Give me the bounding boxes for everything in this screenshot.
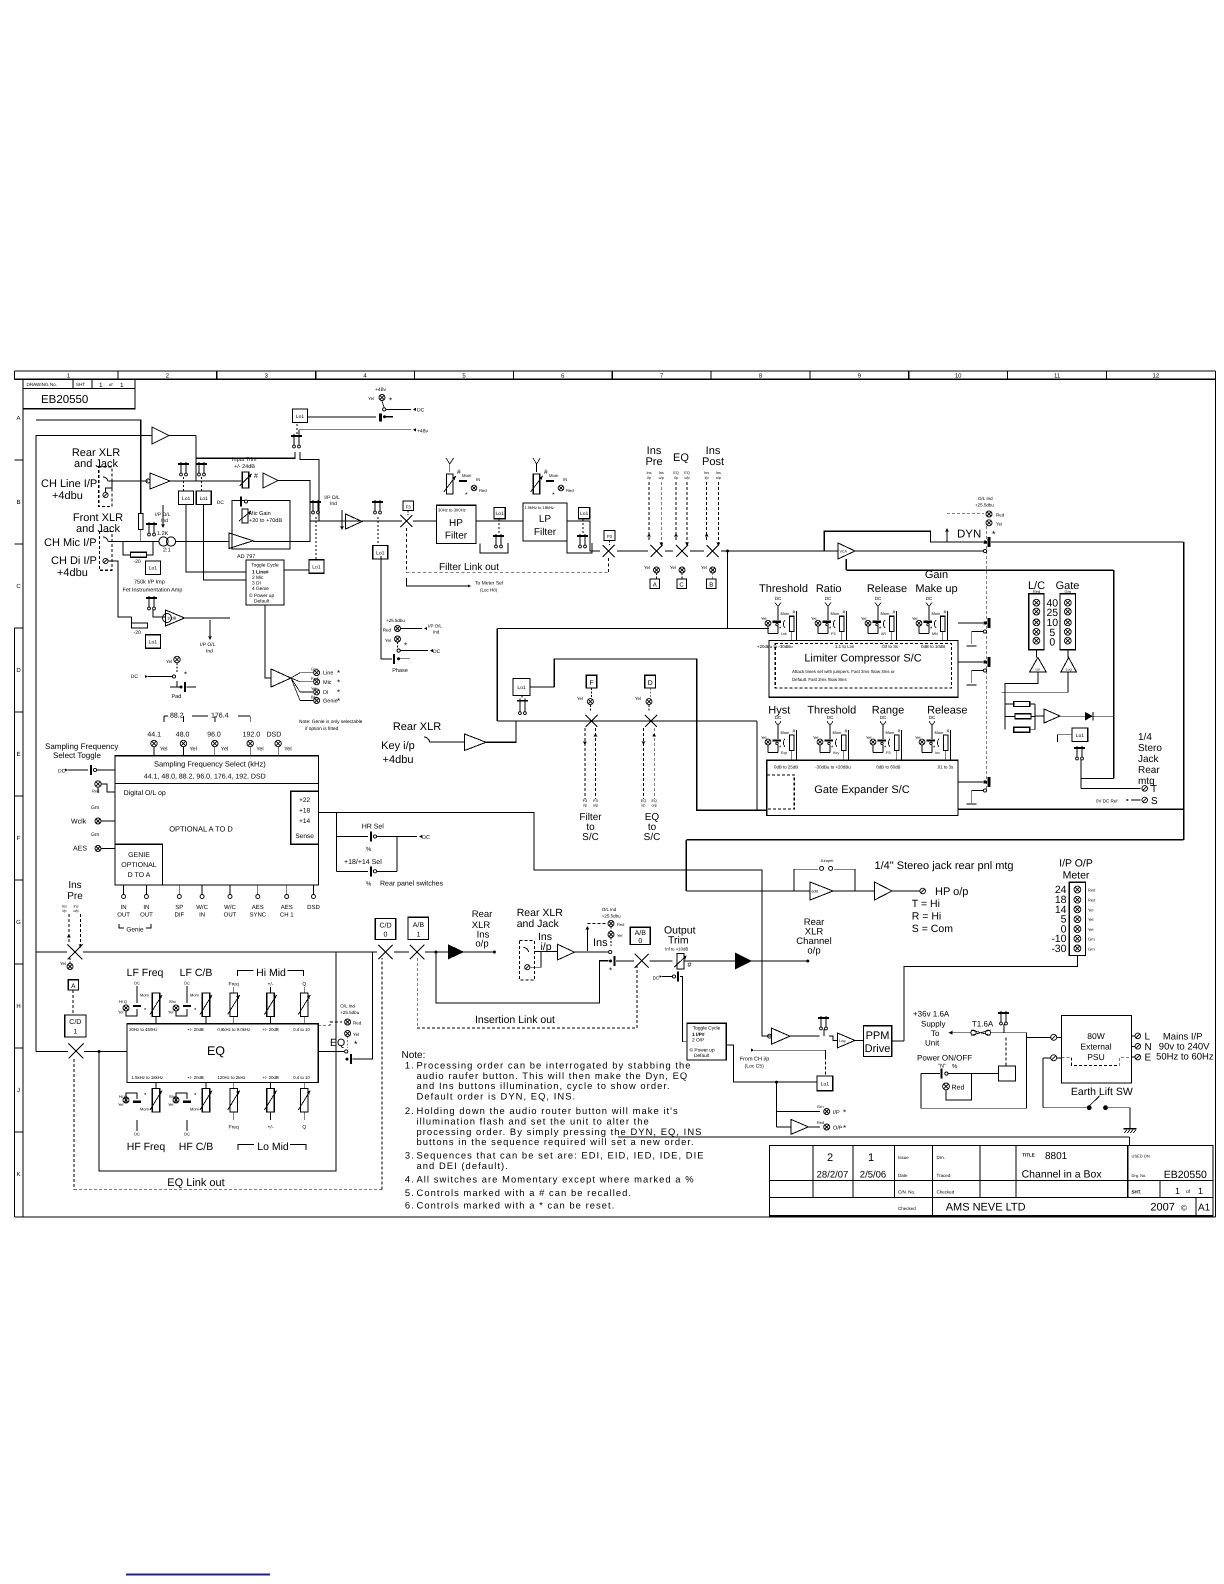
svg-text:Sampling Frequency: Sampling Frequency: [45, 742, 118, 751]
svg-text:Ins: Ins: [593, 937, 608, 949]
svg-text:+/- 20dB: +/- 20dB: [262, 1027, 278, 1032]
svg-text:DRAWING No.: DRAWING No.: [27, 382, 57, 387]
svg-text:E: E: [1145, 1053, 1152, 1064]
svg-text:F3: F3: [593, 799, 597, 803]
eq box: [127, 1024, 318, 1083]
svg-text:Ind: Ind: [433, 630, 440, 635]
svg-text:#: #: [947, 728, 950, 734]
svg-text:OUT: OUT: [117, 912, 130, 919]
svg-text:Shv: Shv: [169, 999, 176, 1004]
svg-text:A: A: [653, 582, 657, 589]
svg-text:#: #: [457, 469, 461, 476]
svg-text:I/P O/P: I/P O/P: [1059, 858, 1093, 870]
resistor sum 2: [1015, 714, 1031, 719]
Lo1 key: [513, 679, 530, 696]
svg-text:+/-: +/-: [268, 982, 274, 988]
svg-text:Jumper: Jumper: [820, 858, 834, 863]
svg-text:(Loc C5): (Loc C5): [745, 1064, 765, 1070]
svg-text:Issue: Issue: [898, 1155, 909, 1160]
svg-text:Mom: Mom: [140, 1107, 150, 1112]
svg-text:2:1: 2:1: [163, 548, 171, 554]
svg-text:CH Line I/P: CH Line I/P: [41, 478, 97, 490]
svg-text:CH Di I/P: CH Di I/P: [51, 555, 97, 567]
svg-text:2: 2: [827, 1152, 833, 1164]
wire dyn bypass: [824, 531, 983, 551]
wire key to gate: [756, 721, 758, 810]
wire lo1 jack: [1057, 735, 1072, 742]
svg-text:EQ: EQ: [651, 799, 657, 803]
side chain jumpers: [983, 621, 986, 624]
wire phase feed: [380, 556, 382, 659]
svg-text:i/p: i/p: [647, 476, 651, 480]
svg-text:Yel: Yel: [861, 616, 867, 621]
svg-text:+/- 24dB: +/- 24dB: [234, 464, 255, 470]
wire main output return path: [1183, 542, 1185, 840]
svg-text:+25.5dbu: +25.5dbu: [602, 914, 621, 919]
svg-text:Mom: Mom: [831, 611, 841, 616]
switch ins pre eq: [68, 945, 83, 960]
relay line mute: [310, 500, 321, 514]
svg-text:Default: Default: [254, 599, 270, 605]
svg-text:Line: Line: [323, 671, 333, 677]
svg-text:+22: +22: [299, 797, 310, 804]
wire 36v to psu: [1007, 1033, 1050, 1038]
svg-text:C/N. No.: C/N. No.: [898, 1190, 915, 1195]
svg-text:Lo1: Lo1: [296, 414, 305, 420]
svg-text:Ind: Ind: [206, 649, 213, 655]
svg-text:+25.5dbu: +25.5dbu: [975, 503, 994, 508]
svg-text:D: D: [648, 680, 653, 687]
svg-text:A/B: A/B: [413, 921, 425, 929]
wire main filters to VCA: [617, 550, 648, 552]
svg-text:Yel: Yel: [166, 659, 172, 664]
Lo1 line mute: [309, 560, 324, 574]
svg-text:*: *: [337, 697, 340, 706]
svg-text:Lo1: Lo1: [517, 685, 526, 691]
svg-text:i/p: i/p: [62, 909, 66, 913]
op-amp top buffer: [152, 427, 169, 444]
resistor -20 pad 2: [131, 623, 147, 628]
node branch to insert box: [726, 550, 729, 553]
svg-text:HF C/B: HF C/B: [179, 1141, 213, 1153]
svg-text:o/p: o/p: [73, 909, 78, 913]
pot LP freq cluster: [533, 474, 540, 494]
relay psu: [998, 1011, 1009, 1025]
svg-text:DI: DI: [323, 690, 329, 696]
wire key box left: [496, 629, 498, 721]
svg-text:Mom: Mom: [190, 1107, 200, 1112]
svg-text:0dB to 10dB: 0dB to 10dB: [921, 644, 945, 649]
svg-text:Rear: Rear: [472, 909, 493, 920]
LED power red: [943, 1083, 950, 1090]
svg-text:DC: DC: [217, 500, 225, 506]
svg-text:AES: AES: [281, 904, 293, 911]
svg-text:Pad: Pad: [172, 694, 182, 700]
svg-text:Yel: Yel: [221, 747, 228, 753]
svg-text:© Power up: © Power up: [249, 593, 274, 599]
svg-text:O/L Ind: O/L Ind: [340, 1004, 355, 1009]
svg-text:Release: Release: [867, 583, 907, 595]
svg-text:#: #: [544, 469, 548, 476]
svg-text:Yel: Yel: [284, 747, 291, 753]
svg-text:O/L Ind: O/L Ind: [978, 496, 993, 501]
op-amp meter sum: [1044, 709, 1060, 723]
svg-text:B: B: [709, 582, 713, 589]
wire 36v arrow: [949, 1031, 953, 1035]
Lo1 LP bypass: [579, 508, 590, 519]
svg-text:Key i/p: Key i/p: [381, 740, 415, 752]
LED stack line/mic/di/genie: [291, 673, 300, 678]
svg-text:D: D: [16, 667, 21, 674]
svg-text:A: A: [16, 415, 20, 422]
capacitor pad: [180, 686, 183, 689]
svg-text:DC: DC: [58, 769, 66, 775]
svg-text:28/2/07: 28/2/07: [817, 1170, 849, 1181]
svg-text:Rear panel switches: Rear panel switches: [380, 880, 444, 888]
svg-text:#: #: [845, 728, 848, 734]
svg-text:C/D: C/D: [69, 1018, 81, 1026]
svg-text:O/L Ind: O/L Ind: [602, 907, 617, 912]
svg-text:0V DC Ref: 0V DC Ref: [1096, 799, 1118, 804]
svg-text:Yel: Yel: [761, 616, 767, 621]
switch eq insert: [676, 545, 688, 557]
svg-text:Mom: Mom: [781, 611, 791, 616]
svg-text:1: 1: [1198, 1186, 1203, 1196]
Lo1 phantom: [293, 409, 308, 423]
svg-text:DYN: DYN: [957, 529, 981, 541]
svg-text:Rear XLR: Rear XLR: [393, 721, 441, 733]
svg-text:2007: 2007: [1150, 1202, 1174, 1214]
svg-text:Lo1: Lo1: [312, 565, 321, 571]
drawing number title box: [23, 379, 135, 409]
svg-text:120Hz to 2kHz: 120Hz to 2kHz: [217, 1075, 245, 1080]
svg-text:DC: DC: [184, 1132, 190, 1137]
svg-text:1/4: 1/4: [1138, 732, 1152, 743]
switch box CD1: [65, 1015, 86, 1037]
pot LF cb: [202, 993, 209, 1017]
switch ab1: [410, 945, 424, 959]
svg-text:Inf to +10dB: Inf to +10dB: [665, 947, 688, 952]
svg-text:1.5kHz to 18kHz: 1.5kHz to 18kHz: [132, 1075, 164, 1080]
svg-text:DSD: DSD: [307, 904, 320, 911]
svg-text:USED ON: USED ON: [1132, 1154, 1150, 1159]
svg-text:F: F: [589, 680, 593, 687]
svg-text:+20 to +70dB: +20 to +70dB: [249, 518, 282, 524]
svg-text:Drg. No.: Drg. No.: [1132, 1173, 1147, 1178]
eq to sc dashed arrows: [643, 728, 645, 799]
wire vca down to sc: [845, 559, 847, 570]
svg-text:SYNC: SYNC: [249, 912, 266, 919]
svg-text:2 Mic: 2 Mic: [252, 575, 264, 581]
svg-text:EQ: EQ: [330, 1037, 345, 1049]
pot lo mid freq: [230, 1089, 237, 1113]
svg-text:+36v 1.6A: +36v 1.6A: [913, 1010, 950, 1019]
Lo1 line relay driver 2: [196, 491, 211, 505]
switch box F0: [604, 531, 615, 541]
pot HF cb: [202, 1089, 209, 1113]
svg-text:Note: Genie is only selectable: Note: Genie is only selectable: [299, 719, 363, 725]
svg-text:*: *: [354, 1039, 358, 1049]
svg-text:HP o/p: HP o/p: [935, 886, 968, 898]
svg-text:Yel: Yel: [813, 735, 819, 740]
svg-text:12: 12: [1153, 373, 1160, 380]
wire power loop: [921, 1037, 1027, 1108]
svg-text:Lnk: Lnk: [781, 632, 787, 636]
svg-text:DIF: DIF: [174, 912, 184, 919]
relay jack: [1074, 746, 1085, 760]
switch filter insert 1: [400, 515, 412, 527]
svg-text:Log: Log: [839, 1039, 845, 1043]
switch box F: [586, 675, 597, 688]
svg-text:Mom: Mom: [190, 993, 200, 998]
svg-text:Pre: Pre: [67, 891, 83, 902]
svg-text:Red: Red: [617, 922, 624, 927]
wire LP out to main: [567, 521, 600, 551]
wire lin log to sum: [1005, 672, 1038, 730]
svg-text:T1.6A: T1.6A: [972, 1020, 994, 1029]
LED dyn yel: [986, 520, 992, 526]
svg-text:Yel: Yel: [118, 1102, 124, 1107]
svg-text:0.4 to 10: 0.4 to 10: [293, 1075, 310, 1080]
svg-text:E: E: [16, 751, 20, 758]
earth switch: [1042, 1058, 1044, 1108]
svg-text:Controls marked with a # can b: Controls marked with a # can be recalled…: [417, 1187, 633, 1198]
svg-text:Yel: Yel: [368, 396, 374, 401]
wire line jack to amp: [108, 480, 148, 482]
bottom pins: [123, 885, 125, 895]
svg-text:Yel: Yel: [912, 616, 918, 621]
bottom blue margin line: [126, 1574, 270, 1576]
svg-text:Filter: Filter: [534, 527, 557, 538]
svg-text:%: %: [366, 881, 372, 888]
wire toggle io to leds: [726, 1045, 817, 1082]
svg-text:*: *: [992, 529, 996, 539]
svg-text:Key: Key: [833, 751, 839, 755]
svg-text:1: 1: [120, 382, 124, 389]
svg-text:DSD: DSD: [267, 732, 282, 739]
svg-text:Yel: Yel: [1088, 927, 1094, 932]
svg-text:EQ: EQ: [673, 471, 679, 475]
svg-text:%: %: [952, 1063, 958, 1070]
svg-text:Mom: Mom: [140, 993, 150, 998]
svg-text:+/- 20dB: +/- 20dB: [187, 1027, 203, 1032]
pot hi mid freq: [230, 993, 237, 1017]
svg-text:Q: Q: [302, 1125, 306, 1131]
svg-text:Mom: Mom: [881, 611, 891, 616]
Lo1 HP bypass: [494, 508, 505, 519]
svg-text:Pre: Pre: [645, 456, 662, 468]
svg-text:To: To: [931, 1029, 940, 1038]
svg-text:Grn: Grn: [1088, 946, 1095, 951]
svg-text:PPM: PPM: [866, 1030, 890, 1042]
pot lo mid q: [301, 1089, 308, 1113]
svg-text:88.2: 88.2: [170, 713, 184, 720]
svg-text:F: F: [17, 835, 21, 842]
svg-text:Stero: Stero: [1138, 743, 1162, 754]
svg-text:0.8kHz to 9.0kHz: 0.8kHz to 9.0kHz: [217, 1027, 250, 1032]
svg-text:%: %: [366, 846, 372, 853]
pot HF freq: [152, 1089, 159, 1113]
svg-text:OUT: OUT: [140, 912, 153, 919]
svg-text:o/p: o/p: [593, 804, 598, 808]
svg-text:Sampling Frequency Select (kHz: Sampling Frequency Select (kHz): [154, 760, 266, 769]
svg-text:OPTIONAL: OPTIONAL: [121, 862, 157, 869]
svg-text:Ind: Ind: [161, 518, 168, 524]
svg-text:W/C: W/C: [224, 904, 236, 911]
svg-text:Yel: Yel: [168, 1102, 174, 1107]
svg-text:Drive: Drive: [865, 1043, 891, 1055]
svg-text:AR: AR: [881, 632, 886, 636]
svg-text:DC: DC: [417, 408, 425, 414]
op-amp op led: [777, 1126, 792, 1128]
svg-text:HR Sel: HR Sel: [362, 823, 385, 831]
svg-text:Yel: Yel: [118, 1010, 124, 1015]
svg-text:Lo1: Lo1: [149, 640, 158, 646]
op-amp line send: [346, 514, 363, 529]
svg-text:Red: Red: [353, 1021, 362, 1026]
svg-text:176.4: 176.4: [211, 713, 229, 720]
svg-text:1 I/P#: 1 I/P#: [692, 1032, 705, 1038]
psu input terminal 2: [1051, 1055, 1057, 1061]
svg-text:1: 1: [868, 1152, 874, 1164]
svg-text:Checked: Checked: [937, 1190, 955, 1195]
toggle cycle box io: [687, 1023, 726, 1060]
pot input trim: [242, 472, 249, 488]
switch ins post: [707, 545, 719, 557]
svg-text:Channel in a Box: Channel in a Box: [1022, 1169, 1103, 1181]
svg-text:Lo Mid: Lo Mid: [257, 1141, 289, 1153]
svg-text:Ins: Ins: [62, 905, 67, 909]
svg-text:MN: MN: [932, 632, 938, 636]
svg-text:Q: Q: [302, 982, 306, 988]
dashed to lo1 io: [825, 1056, 827, 1076]
wire ins return out: [575, 951, 609, 953]
svg-text:CH 1: CH 1: [280, 912, 294, 919]
svg-text:I/P: I/P: [833, 1110, 840, 1116]
svg-text:Yel: Yel: [256, 747, 263, 753]
arrow dyn: [946, 529, 948, 542]
wire main after dyn: [991, 541, 1184, 543]
svg-text:1: 1: [73, 1029, 77, 1036]
svg-text:Wclk: Wclk: [71, 818, 87, 826]
svg-text:EQ Link out: EQ Link out: [167, 1177, 224, 1189]
svg-text:.03 to 3s: .03 to 3s: [881, 644, 899, 649]
svg-text:44.1, 48.0, 88.2, 96.0, 176.4,: 44.1, 48.0, 88.2, 96.0, 176.4, 192, DSD: [144, 774, 266, 781]
svg-text:Gain: Gain: [925, 569, 948, 581]
svg-text:and Jack: and Jack: [517, 918, 560, 930]
svg-text:1 Line#: 1 Line#: [252, 570, 269, 576]
op-amp 10dB instrumentation: [166, 610, 185, 626]
Lo1 jack mute: [1072, 728, 1088, 742]
eq link dashed: [73, 1059, 75, 1190]
wire gate out right: [958, 808, 1184, 810]
svg-text:2 O/P: 2 O/P: [692, 1038, 704, 1044]
relay filter in: [372, 500, 383, 514]
svg-text:N: N: [1145, 1042, 1152, 1053]
wire main through HP: [413, 520, 437, 522]
psu input terminal 1: [1051, 1034, 1057, 1040]
svg-text:Range: Range: [872, 705, 904, 717]
svg-text:DC: DC: [131, 674, 139, 680]
ppm drive box: [864, 1026, 892, 1057]
svg-text:Red: Red: [952, 1084, 965, 1092]
svg-text:EQ: EQ: [641, 799, 647, 803]
svg-text:+/- 20dB: +/- 20dB: [262, 1075, 278, 1080]
switch filter insert 2: [603, 545, 615, 557]
svg-text:i/p: i/p: [674, 476, 678, 480]
wire pad loops: [123, 542, 131, 555]
svg-text:B: B: [16, 499, 20, 506]
wire trim to drive amp: [684, 960, 735, 962]
svg-text:R = Hi: R = Hi: [912, 911, 941, 923]
wire phantom feed: [36, 420, 141, 514]
svg-text:Yel: Yel: [1088, 917, 1094, 922]
wire buffer to relay: [790, 1035, 819, 1037]
psu terminals LNE: [1132, 1035, 1135, 1037]
svg-text:*: *: [465, 492, 468, 499]
svg-text:To Meter Sel: To Meter Sel: [475, 581, 503, 587]
svg-text:Red: Red: [383, 628, 392, 633]
switch box CD0: [375, 919, 396, 940]
svg-text:Gate Expander S/C: Gate Expander S/C: [814, 784, 909, 796]
wire hp bypass loop: [480, 543, 508, 553]
svg-text:Default: Default: [694, 1053, 710, 1059]
svg-text:EQ: EQ: [207, 1044, 225, 1058]
phantom capacitor: [379, 414, 382, 422]
svg-text:DC: DC: [422, 835, 430, 841]
svg-text:Ins: Ins: [646, 471, 651, 475]
wire main bus to insert: [35, 951, 67, 953]
svg-text:750k I/P Imp: 750k I/P Imp: [134, 580, 165, 586]
svg-text:11: 11: [1054, 373, 1061, 380]
svg-text:Ins: Ins: [704, 471, 709, 475]
svg-text:0: 0: [384, 932, 388, 939]
switch box AB0: [630, 927, 650, 944]
op-amp line input: [150, 473, 170, 489]
svg-text:Jack: Jack: [1138, 754, 1160, 765]
svg-text:-30dBu to +20dBu: -30dBu to +20dBu: [815, 765, 851, 770]
svg-text:2/5/06: 2/5/06: [860, 1170, 886, 1181]
psu box: [1061, 1016, 1131, 1084]
jumper bypass hp: [794, 869, 818, 891]
Lo1 filter: [373, 546, 388, 560]
svg-text:AES: AES: [73, 846, 87, 853]
toggle cycle box input select: [246, 560, 284, 605]
svg-text:Yel: Yel: [577, 696, 583, 701]
svg-text:F3: F3: [406, 505, 412, 510]
svg-text:Unit: Unit: [925, 1039, 940, 1048]
switch box F3: [403, 501, 414, 511]
svg-text:0: 0: [1049, 637, 1055, 649]
svg-text:Mom: Mom: [886, 730, 896, 735]
svg-text:i/p: i/p: [583, 804, 587, 808]
svg-text:Drn.: Drn.: [937, 1155, 946, 1160]
svg-text:Attack times set with jumpers.: Attack times set with jumpers. Fast 3ms …: [792, 669, 895, 674]
svg-text:1.: 1.: [405, 1060, 415, 1071]
svg-text:Yel: Yel: [1088, 907, 1094, 912]
svg-text:Grn: Grn: [91, 832, 100, 838]
svg-text:+4dbu: +4dbu: [52, 490, 83, 502]
frequency LEDs: [151, 740, 157, 746]
filter link out dashed: [405, 528, 407, 573]
svg-text:*: *: [337, 669, 340, 678]
svg-text:Yel: Yel: [617, 933, 623, 938]
switch box A: [650, 579, 660, 589]
svg-text:30Hz to 450Hz: 30Hz to 450Hz: [129, 1027, 157, 1032]
jack hp op: [920, 888, 926, 894]
svg-text:+48v: +48v: [417, 428, 428, 434]
relay LP bypass: [577, 534, 588, 548]
